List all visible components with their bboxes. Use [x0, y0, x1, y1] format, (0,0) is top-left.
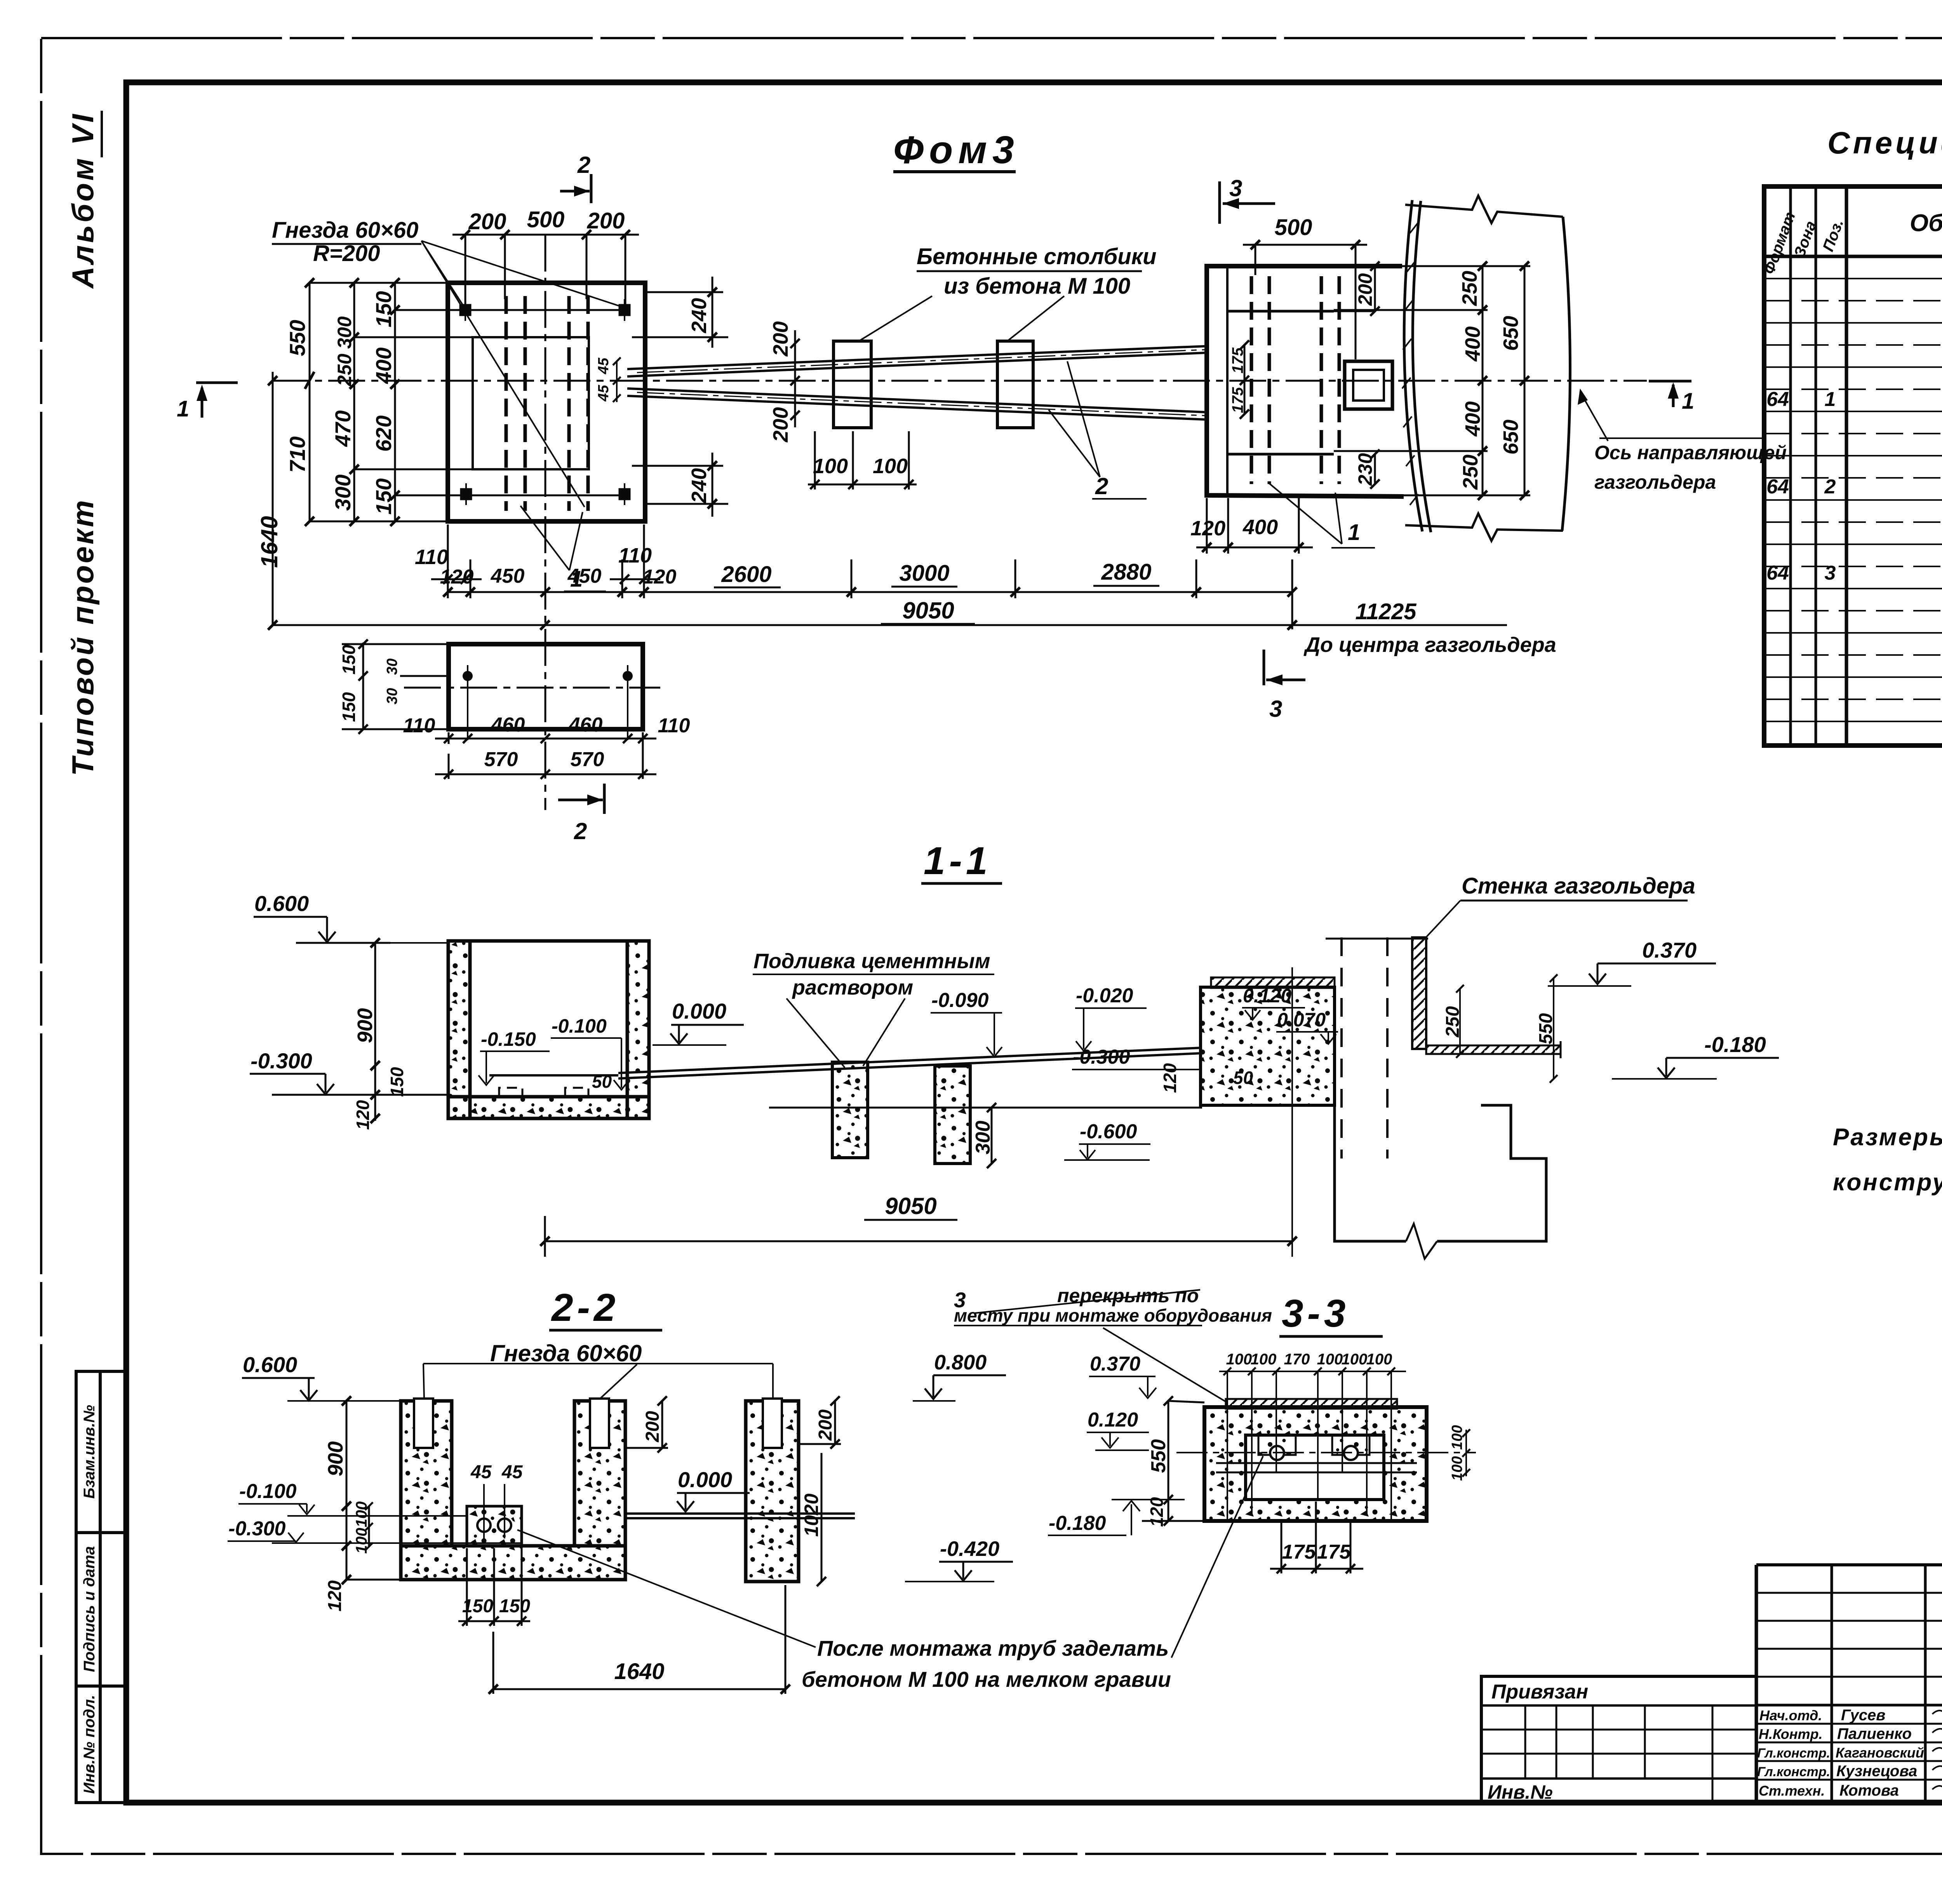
- concrete post 2 (plan): [997, 341, 1033, 428]
- svg-text:-0.300: -0.300: [228, 1517, 286, 1540]
- svg-text:2: 2: [1095, 473, 1108, 499]
- svg-text:0.370: 0.370: [1090, 1353, 1140, 1375]
- svg-text:450: 450: [491, 565, 525, 587]
- svg-text:120: 120: [1190, 517, 1225, 540]
- svg-text:470: 470: [331, 410, 355, 447]
- svg-text:0.000: 0.000: [678, 1467, 732, 1492]
- 9050 dim under section: [540, 967, 1297, 1257]
- dim 240 upper right of plan: [632, 277, 728, 348]
- svg-text:-0.420: -0.420: [940, 1537, 999, 1561]
- wall 2: [574, 1401, 625, 1546]
- ground line: [769, 1107, 1202, 1109]
- svg-text:120: 120: [440, 566, 474, 588]
- channel dashed pair 1: [506, 296, 588, 511]
- svg-text:250: 250: [1443, 1006, 1463, 1038]
- svg-text:После монтажа труб заделать: После монтажа труб заделать: [817, 1636, 1169, 1660]
- 1640 dim: [272, 372, 274, 625]
- svg-text:Кузнецова: Кузнецова: [1836, 1763, 1917, 1780]
- svg-text:-0.180: -0.180: [1049, 1512, 1106, 1535]
- svg-text:9050: 9050: [902, 598, 954, 624]
- svg-text:50: 50: [1233, 1068, 1253, 1088]
- svg-text:400: 400: [1242, 516, 1278, 539]
- right foundation (section 1-1): [1201, 987, 1335, 1105]
- left привязан table: [1481, 1676, 1756, 1803]
- svg-text:До центра газгольдера: До центра газгольдера: [1303, 633, 1556, 657]
- svg-text:110: 110: [415, 545, 448, 569]
- svg-text:150: 150: [339, 645, 359, 674]
- svg-text:120: 120: [353, 1100, 373, 1130]
- left dims 550 120: [1142, 1396, 1204, 1526]
- svg-text:100: 100: [1366, 1351, 1392, 1368]
- svg-text:Бзам.инв.№: Бзам.инв.№: [81, 1405, 98, 1499]
- svg-text:3: 3: [1229, 175, 1242, 201]
- pad dims 110 460 460 110: [435, 732, 656, 779]
- svg-text:0.600: 0.600: [254, 891, 309, 916]
- svg-text:2: 2: [1824, 476, 1836, 498]
- svg-text:150: 150: [462, 1596, 493, 1617]
- svg-text:650: 650: [1499, 420, 1523, 455]
- anchor sockets: [460, 299, 630, 505]
- svg-text:2: 2: [577, 152, 590, 178]
- svg-text:250: 250: [1459, 455, 1482, 490]
- svg-text:0.120: 0.120: [1088, 1409, 1138, 1431]
- svg-text:460: 460: [491, 714, 525, 736]
- svg-text:Инв.№ подл.: Инв.№ подл.: [81, 1695, 98, 1794]
- post depth dim 300: [987, 1103, 996, 1168]
- svg-text:500: 500: [527, 207, 565, 232]
- svg-text:100: 100: [813, 455, 848, 478]
- svg-text:Подпись и дата: Подпись и дата: [81, 1546, 98, 1672]
- svg-text:200: 200: [587, 208, 625, 233]
- channel dashed pair 2: [567, 296, 571, 511]
- svg-text:45: 45: [595, 385, 612, 402]
- svg-text:3: 3: [1269, 696, 1282, 722]
- pad bolts: [463, 671, 473, 681]
- pipe in section: [489, 1048, 1202, 1078]
- svg-text:Стенка газгольдера: Стенка газгольдера: [1462, 873, 1695, 899]
- bolt pads: [1258, 1435, 1296, 1455]
- svg-text:200: 200: [1354, 273, 1376, 306]
- svg-text:570: 570: [571, 748, 604, 771]
- bottom dims 120 400: [1196, 498, 1313, 554]
- svg-text:Ось направляющей: Ось направляющей: [1594, 442, 1787, 463]
- svg-text:Котова: Котова: [1839, 1782, 1899, 1799]
- svg-text:Спецификация к Фом3: Спецификация к Фом3: [1827, 125, 1942, 160]
- svg-text:200: 200: [468, 209, 506, 234]
- tank wall (section): [1412, 937, 1426, 1049]
- lower pipe (channel): [627, 388, 1207, 412]
- svg-text:газгольдера: газгольдера: [1594, 471, 1716, 493]
- svg-text:460: 460: [569, 714, 603, 736]
- svg-text:из бетона М 100: из бетона М 100: [944, 273, 1130, 299]
- svg-text:-0.600: -0.600: [1080, 1120, 1137, 1143]
- svg-text:Подливка цементным: Подливка цементным: [753, 949, 990, 973]
- svg-text:100: 100: [1251, 1351, 1277, 1368]
- dims 200 200 1020: [625, 1396, 841, 1586]
- svg-text:0.000: 0.000: [672, 999, 726, 1023]
- svg-text:Фом3: Фом3: [893, 128, 1020, 172]
- left stamp strip: [76, 1371, 126, 1803]
- channel dashed pairs: [1251, 276, 1339, 484]
- svg-text:3: 3: [1825, 562, 1836, 584]
- square socket: [1345, 361, 1392, 409]
- signatures squiggles: [1932, 1709, 1942, 1792]
- svg-text:0.370: 0.370: [1642, 938, 1697, 962]
- svg-text:Ст.техн.: Ст.техн.: [1759, 1783, 1825, 1799]
- svg-text:120: 120: [1160, 1063, 1180, 1093]
- svg-text:-0.150: -0.150: [481, 1028, 536, 1050]
- svg-text:150: 150: [499, 1596, 530, 1617]
- svg-text:-0.090: -0.090: [931, 989, 989, 1012]
- dims 150 150: [458, 1548, 530, 1626]
- section marker 3 bottom: [1263, 650, 1265, 685]
- svg-text:0.070: 0.070: [1277, 1009, 1326, 1031]
- svg-text:100: 100: [1449, 1456, 1465, 1481]
- svg-text:Альбом VI: Альбом VI: [66, 112, 100, 289]
- plan vertical centerline: [545, 235, 546, 810]
- svg-text:1: 1: [177, 396, 189, 422]
- svg-text:бетоном М 100 на мелком гравии: бетоном М 100 на мелком гравии: [802, 1667, 1171, 1691]
- plan outer square: [448, 283, 645, 521]
- svg-text:620: 620: [371, 415, 396, 451]
- concrete post 1 (plan): [834, 341, 871, 428]
- svg-text:1: 1: [1825, 388, 1836, 411]
- left margin label: Альбом VI: [66, 112, 100, 289]
- svg-text:240: 240: [687, 468, 711, 503]
- spec table headers: [1761, 210, 1799, 277]
- tiny 45/45 dims at plan right edge: [595, 357, 612, 375]
- svg-text:230: 230: [1354, 453, 1376, 486]
- bottom slab: [401, 1546, 625, 1580]
- svg-text:Гл.констр.: Гл.констр.: [1757, 1765, 1830, 1779]
- svg-text:50: 50: [592, 1071, 612, 1092]
- svg-text:3-3: 3-3: [1282, 1292, 1350, 1335]
- section marker 3 top: [1218, 181, 1221, 224]
- svg-text:30: 30: [384, 688, 400, 704]
- svg-text:110: 110: [658, 714, 690, 737]
- right dim chain 650/650: [1520, 261, 1529, 500]
- svg-text:11225: 11225: [1356, 599, 1417, 624]
- post dims 100 100: [808, 431, 917, 490]
- svg-text:710: 710: [285, 436, 310, 472]
- svg-text:64: 64: [1766, 476, 1789, 498]
- svg-text:0.120: 0.120: [1243, 985, 1291, 1007]
- svg-text:раствором: раствором: [792, 976, 913, 999]
- tank column dashed lines: [1342, 937, 1387, 1158]
- svg-text:900: 900: [324, 1441, 347, 1476]
- svg-text:1-1: 1-1: [924, 839, 992, 883]
- svg-text:100: 100: [353, 1502, 370, 1528]
- svg-text:45: 45: [595, 357, 612, 375]
- bottom plate band edges with break marks: [1405, 196, 1563, 223]
- svg-text:150: 150: [371, 291, 396, 327]
- svg-text:500: 500: [1275, 215, 1312, 240]
- svg-text:Типовой проект: Типовой проект: [66, 498, 100, 776]
- svg-text:200: 200: [815, 1409, 836, 1441]
- svg-text:-0.020: -0.020: [1076, 984, 1133, 1007]
- 9050 / 11225 line: [273, 559, 1507, 630]
- concrete posts (section): [832, 1062, 868, 1158]
- svg-text:150: 150: [387, 1067, 407, 1097]
- svg-text:110: 110: [403, 714, 435, 737]
- svg-text:-0.100: -0.100: [552, 1015, 607, 1037]
- svg-text:120: 120: [325, 1580, 345, 1611]
- right dim chain 250/400/400/250: [1334, 261, 1530, 500]
- svg-text:Привязан: Привязан: [1491, 1681, 1588, 1703]
- svg-text:550: 550: [285, 320, 310, 356]
- svg-text:конструктивно: конструктивно: [1833, 1169, 1942, 1196]
- gas holder wall (curved, hatched): [1402, 196, 1570, 541]
- small dims 120 50 250 550: [1160, 1063, 1180, 1093]
- dim 240 lower right of plan: [632, 453, 728, 517]
- section marker 1 right: [1649, 380, 1691, 383]
- svg-text:30: 30: [384, 658, 400, 675]
- svg-text:-0.300: -0.300: [1073, 1046, 1130, 1068]
- pipe centerlines: [637, 350, 1207, 373]
- svg-text:400: 400: [1461, 326, 1484, 362]
- svg-text:Нач.отд.: Нач.отд.: [1759, 1707, 1822, 1723]
- svg-text:550: 550: [1147, 1439, 1170, 1473]
- svg-text:100: 100: [1449, 1425, 1465, 1449]
- svg-text:250: 250: [1458, 271, 1481, 306]
- svg-text:Размеры фундамента Фом3 опреде: Размеры фундамента Фом3 определены: [1833, 1124, 1942, 1151]
- svg-text:2: 2: [574, 818, 587, 844]
- floor recess marks: [499, 1088, 588, 1096]
- bolt pad: [467, 1506, 522, 1546]
- svg-text:200: 200: [769, 407, 792, 442]
- section marker 2 bottom: [603, 784, 606, 814]
- svg-text:Кагановский: Кагановский: [1836, 1745, 1924, 1761]
- svg-text:Гнезда 60×60: Гнезда 60×60: [272, 218, 418, 243]
- floor plate right of wall: [1426, 1045, 1561, 1054]
- svg-text:570: 570: [484, 748, 518, 771]
- svg-text:100: 100: [1317, 1351, 1343, 1368]
- svg-text:2-2: 2-2: [551, 1286, 619, 1329]
- leaders from Гнезда to sockets: [423, 1364, 773, 1399]
- dims 175/175: [1240, 340, 1249, 419]
- svg-text:200: 200: [769, 321, 792, 357]
- dim 205 (top): [1334, 261, 1380, 316]
- main axis centerline: [272, 380, 1647, 382]
- svg-text:120: 120: [1147, 1497, 1167, 1527]
- svg-text:110: 110: [618, 544, 652, 567]
- plate outline: [1207, 266, 1404, 496]
- central signature grid: [1755, 1565, 1758, 1803]
- svg-text:175: 175: [1229, 347, 1246, 373]
- plan inner step rect: [473, 337, 589, 469]
- upper pipe (channel): [627, 346, 1207, 369]
- svg-text:9050: 9050: [885, 1193, 936, 1219]
- svg-text:100: 100: [1342, 1351, 1368, 1368]
- dim chain 900/150/120: [371, 938, 380, 1123]
- dim chain left 900/100/100/120: [342, 1396, 401, 1584]
- svg-text:месту при монтаже оборудования: месту при монтаже оборудования: [954, 1305, 1272, 1326]
- svg-text:200: 200: [642, 1411, 663, 1442]
- svg-text:45: 45: [501, 1462, 523, 1482]
- svg-text:Обозначение: Обозначение: [1910, 210, 1942, 237]
- svg-text:550: 550: [1536, 1013, 1556, 1044]
- svg-text:Н.Контр.: Н.Контр.: [1759, 1726, 1823, 1742]
- svg-text:2880: 2880: [1101, 559, 1151, 585]
- outer curve of plate band: [1562, 217, 1570, 531]
- svg-text:64: 64: [1766, 562, 1789, 584]
- svg-text:1640: 1640: [614, 1659, 664, 1684]
- dim 500 top: [1243, 240, 1367, 359]
- svg-text:0.800: 0.800: [934, 1351, 987, 1374]
- svg-text:100: 100: [873, 455, 908, 478]
- svg-text:240: 240: [687, 298, 711, 333]
- svg-text:-0.180: -0.180: [1704, 1032, 1766, 1057]
- svg-text:100: 100: [1226, 1351, 1252, 1368]
- svg-text:100: 100: [353, 1528, 370, 1554]
- svg-text:900: 900: [353, 1008, 377, 1043]
- bottom dims 175 175: [1270, 1502, 1363, 1573]
- dim 230 (bottom): [1370, 449, 1380, 489]
- svg-text:Гнезда 60×60: Гнезда 60×60: [490, 1340, 642, 1366]
- svg-text:1640: 1640: [256, 516, 282, 568]
- top dim chain 200/500/200: [452, 230, 639, 309]
- svg-text:1: 1: [1348, 520, 1360, 545]
- svg-text:170: 170: [1284, 1351, 1310, 1368]
- svg-text:175: 175: [1282, 1541, 1316, 1563]
- svg-text:650: 650: [1499, 316, 1523, 351]
- svg-text:45: 45: [470, 1462, 492, 1482]
- svg-text:300: 300: [331, 474, 355, 510]
- svg-text:Палиенко: Палиенко: [1837, 1725, 1912, 1742]
- ring beam steps below: [1335, 1075, 1546, 1259]
- right dims 100 100: [1462, 1429, 1470, 1477]
- svg-text:Гусев: Гусев: [1841, 1707, 1885, 1724]
- svg-text:64: 64: [1766, 388, 1789, 411]
- svg-text:175: 175: [1317, 1541, 1351, 1563]
- svg-text:0.600: 0.600: [243, 1352, 297, 1377]
- svg-text:R=200: R=200: [313, 241, 380, 266]
- post dims 200 200: [790, 330, 800, 427]
- svg-text:150: 150: [371, 478, 396, 514]
- svg-text:300: 300: [334, 316, 355, 349]
- svg-text:1020: 1020: [800, 1493, 822, 1536]
- wall 1: [401, 1401, 452, 1546]
- leaders to sockets: [421, 241, 620, 507]
- svg-text:400: 400: [371, 347, 396, 384]
- left dim chains: [305, 278, 625, 526]
- svg-text:3000: 3000: [899, 561, 949, 586]
- svg-text:175: 175: [1229, 387, 1246, 413]
- svg-text:2600: 2600: [721, 562, 771, 587]
- top dims 100 100 170 100 100 100: [1219, 1367, 1406, 1519]
- svg-text:450: 450: [567, 565, 602, 587]
- svg-text:-0.100: -0.100: [239, 1480, 297, 1503]
- dim 1640: [489, 1585, 790, 1694]
- svg-text:1: 1: [1682, 388, 1694, 414]
- section marker 1 left: [196, 381, 238, 384]
- svg-text:Бетонные столбики: Бетонные столбики: [917, 244, 1157, 269]
- pad left small dims 150/30: [342, 639, 451, 734]
- svg-text:перекрыть по: перекрыть по: [1057, 1285, 1199, 1306]
- svg-text:Инв.№: Инв.№: [1488, 1781, 1553, 1803]
- svg-text:-0.300: -0.300: [251, 1049, 312, 1073]
- svg-text:400: 400: [1461, 401, 1484, 437]
- left margin label: Типовой проект: [66, 498, 100, 776]
- 3-3 block: [1204, 1407, 1427, 1521]
- axis: [1176, 1452, 1476, 1453]
- pad dims 570 570: [435, 754, 656, 779]
- svg-text:250: 250: [334, 354, 355, 387]
- svg-text:150: 150: [339, 692, 359, 722]
- svg-text:120: 120: [643, 566, 677, 588]
- svg-text:300: 300: [972, 1121, 994, 1155]
- leader to После монтажа note: [1171, 1456, 1263, 1658]
- left trough walls (concrete): [448, 941, 649, 1118]
- svg-text:Гл.констр.: Гл.констр.: [1757, 1746, 1830, 1761]
- embedded pipes lines: [1216, 1462, 1417, 1464]
- wall 3: [746, 1401, 799, 1582]
